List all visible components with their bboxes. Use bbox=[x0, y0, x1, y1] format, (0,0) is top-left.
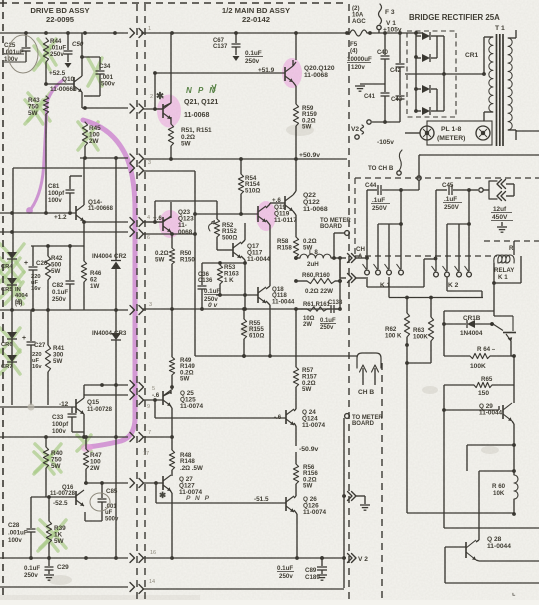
asterisk mark bbox=[156, 91, 165, 102]
label 0v bbox=[208, 302, 218, 309]
green X over R45 bbox=[78, 122, 98, 150]
connector arrows y232 bbox=[130, 228, 144, 239]
wire y171 feed bbox=[143, 170, 195, 172]
scan smudges bbox=[0, 124, 499, 600]
lower right dashed boundary bbox=[381, 363, 383, 600]
wire C45 node to terminal bbox=[469, 188, 489, 192]
resistor R42 bbox=[45, 246, 63, 310]
diode CR1B bbox=[444, 315, 494, 337]
wire to lower connector bbox=[340, 258, 346, 278]
wire Q23 base bbox=[143, 220, 163, 224]
wire Q28 collector bbox=[476, 540, 479, 542]
diode CR2 bbox=[92, 156, 127, 310]
transistor Q22 bbox=[285, 192, 328, 213]
wire Q29 collector emitter bbox=[512, 385, 516, 447]
connector CH A double arrow bbox=[348, 254, 369, 263]
transistor Q23 bbox=[163, 209, 194, 236]
lamp symbol right bbox=[476, 126, 490, 140]
pink highlight blob on Q21 bbox=[157, 95, 181, 128]
diode CR7 bbox=[1, 355, 17, 405]
to CH B wire with terminal bbox=[397, 150, 421, 180]
capacitor C81 bbox=[48, 176, 82, 211]
transistor Q28 bbox=[466, 536, 511, 560]
pink highlight blob on Q23 bbox=[159, 210, 181, 238]
wire top rail drive board bbox=[0, 32, 128, 34]
resistor R64 bbox=[444, 346, 514, 370]
wire rail y558 drive bbox=[0, 556, 128, 560]
label RY partial bbox=[509, 245, 514, 252]
drive/main board boundary dashed line B bbox=[144, 4, 146, 600]
meter lamp box bbox=[427, 121, 492, 145]
wire R44 to Q10 base bbox=[44, 62, 74, 86]
pink highlight blob at R47 top bbox=[81, 444, 93, 452]
resistor R48/R148 bbox=[169, 437, 203, 476]
wire rail y246 drive bbox=[31, 244, 84, 248]
wire Q20 base from +51.9 rail bbox=[153, 71, 285, 75]
wire rail y587 drive bbox=[0, 586, 128, 588]
wire to CH A connector bbox=[340, 257, 346, 259]
label PL 1-8 METER bbox=[437, 126, 465, 142]
capacitor C40 bbox=[377, 33, 390, 92]
green X over R43 bbox=[25, 93, 50, 124]
wire Q14 base line bbox=[0, 211, 76, 215]
transistor Q27 bbox=[163, 475, 203, 496]
resistor R63 bbox=[413, 298, 434, 364]
trimpot R52/R152 bbox=[209, 201, 238, 248]
wire long left rail lower bbox=[407, 512, 514, 514]
wire Q16 base line bbox=[31, 495, 76, 499]
label V1 +105v bbox=[383, 20, 402, 34]
wire ladder top bbox=[442, 311, 494, 356]
connector arrows y395 bbox=[130, 391, 144, 405]
label +50.9v bbox=[299, 152, 320, 159]
label +1.2 bbox=[54, 214, 67, 221]
capacitor C50 bbox=[64, 33, 84, 62]
wire Q20 collector bbox=[293, 33, 296, 66]
resistor R53/R163 bbox=[217, 264, 239, 295]
capacitor C42 bbox=[390, 33, 405, 95]
wire Q21 collector bbox=[163, 33, 171, 107]
transistor Q15 bbox=[76, 398, 113, 414]
capacitor C82 bbox=[52, 246, 75, 310]
diode CR3 bbox=[92, 310, 127, 560]
connector CH B bbox=[357, 353, 381, 385]
label CR1 bbox=[465, 52, 479, 59]
label -51.5 bbox=[254, 496, 269, 503]
green marks over C34 bbox=[88, 58, 102, 86]
wire Q20 emitter and resistor R59 bbox=[293, 82, 317, 159]
label +51.9 bbox=[258, 67, 275, 74]
page left edge dashed border bbox=[2, 0, 4, 600]
label F5 value bbox=[347, 41, 372, 71]
resistor R54/R154 bbox=[238, 159, 260, 214]
drive/main board boundary dashed line A bbox=[136, 4, 138, 600]
connector arrows pin 2 bbox=[130, 104, 144, 113]
wire Q29 base line bbox=[444, 406, 499, 410]
wire 0v rail bbox=[143, 307, 340, 311]
magenta curve stroke 1 bbox=[26, 80, 63, 214]
bridge diode 3 bbox=[416, 85, 437, 111]
relay section left dashed line bbox=[354, 178, 356, 257]
wire C44 node to TO-CH-B bbox=[401, 180, 419, 190]
resistor R45 bbox=[82, 122, 101, 146]
wire Q21 base feed from +51.9 bbox=[154, 73, 156, 109]
transistor Q16 drive bbox=[50, 485, 84, 506]
pink highlight blob on Q19 bbox=[256, 201, 276, 231]
resistor R43 bbox=[28, 96, 49, 117]
wire y234 link bbox=[170, 232, 197, 236]
label -.6 at Q25 bbox=[152, 392, 160, 399]
vertical bus x195 bbox=[194, 171, 196, 356]
wire Q18 collector bbox=[266, 286, 270, 289]
label T1 bbox=[495, 25, 505, 32]
connector arrows y587 bbox=[130, 583, 144, 594]
wire x340 down bbox=[338, 258, 342, 311]
resistor R41 bbox=[45, 310, 65, 405]
label NPN handwritten bbox=[186, 86, 217, 95]
wire Q22 collector bbox=[293, 159, 296, 195]
capacitor C26 electrolytic bbox=[24, 246, 48, 310]
transformer primary winding bbox=[484, 37, 493, 121]
connector bracket to right bbox=[489, 180, 514, 201]
transistor Q19 bbox=[258, 204, 297, 224]
wire x431 upper link bbox=[430, 362, 432, 364]
resistor R61/R161 and capacitor C138 bbox=[296, 300, 343, 331]
junction dots top rail bbox=[24, 31, 117, 35]
wire Q25 base bbox=[143, 398, 163, 402]
connector V2 out bbox=[320, 554, 368, 564]
wire ladder mid bbox=[442, 385, 446, 412]
relay K1 contacts bbox=[363, 264, 404, 275]
transistor Q29 bbox=[479, 403, 512, 421]
resistor R55/R155 bbox=[241, 309, 264, 358]
capacitor C45 bbox=[436, 182, 471, 211]
ground branch C41 bbox=[355, 84, 385, 91]
transformer secondary winding bbox=[508, 38, 516, 130]
transistor Q18 bbox=[258, 286, 295, 305]
main board right dashed boundary bbox=[348, 4, 350, 600]
label PNP handwritten bbox=[186, 495, 211, 502]
label +52.5 bbox=[49, 70, 66, 77]
wire Q19 collector to Q22 base bbox=[266, 203, 285, 208]
meter tap circle bbox=[332, 231, 349, 260]
pencil circle around C85 bbox=[90, 493, 110, 511]
bridge diode 2 bbox=[416, 36, 437, 62]
resistor R49/R149 bbox=[169, 309, 195, 390]
wire Q17 base bbox=[217, 248, 233, 250]
label (2) 10A AGC bbox=[352, 5, 366, 25]
bridge diode 4 bbox=[416, 107, 444, 115]
green X over R40 bbox=[34, 444, 61, 474]
wire Q14 collector bbox=[83, 158, 85, 205]
ground arrow below C50 bbox=[65, 63, 72, 68]
capacitor C89/C189 bbox=[277, 558, 327, 581]
wire y201 link bbox=[155, 201, 217, 222]
transistor Q10 bbox=[50, 76, 82, 93]
capacitor C34 branch bbox=[82, 57, 115, 96]
relay K1 contact feed wires bbox=[367, 190, 403, 269]
wire +50.9 rail bbox=[143, 157, 347, 161]
green mark near NPN label bbox=[212, 84, 216, 92]
label -50.9v bbox=[299, 446, 319, 453]
relay K2 contact feed wires bbox=[436, 190, 471, 271]
vertical wire x344 bbox=[343, 418, 345, 588]
green check marks over R44 bbox=[34, 39, 56, 70]
inductor L8 bbox=[294, 249, 342, 268]
connector arrows y483 bbox=[130, 479, 144, 488]
connector arrows y385 bbox=[130, 381, 144, 392]
capacitor C25 bbox=[4, 33, 31, 63]
connector arrows y437 bbox=[130, 433, 144, 442]
wire rail y222 drive bbox=[84, 221, 128, 223]
green X over CR5 bbox=[0, 272, 24, 304]
wire rail y385 drive bbox=[84, 383, 128, 387]
main board left stub wires bbox=[143, 109, 195, 234]
wire Q25 collector bbox=[163, 390, 171, 396]
label CH A bbox=[356, 246, 365, 260]
label -12 bbox=[59, 401, 69, 408]
wire R43 bottom bbox=[44, 114, 48, 215]
eraser smudge on base line bbox=[28, 404, 35, 411]
wire Q23 emitter bbox=[169, 230, 172, 234]
relay right leg bbox=[494, 256, 521, 283]
connector arrows y558 bbox=[130, 554, 144, 563]
capacitor C28 bbox=[8, 497, 36, 558]
wire rail y483 drive bbox=[84, 481, 128, 485]
wire Q27 base to -51.5 line bbox=[156, 483, 286, 503]
resistor R51/R151 bbox=[168, 117, 212, 159]
capacitor C44 bbox=[365, 182, 403, 212]
wire Q27 emitter bbox=[169, 489, 172, 558]
transistor Q17 bbox=[233, 242, 271, 263]
wire R45 to Q14 rail bbox=[83, 146, 87, 160]
wire Q27 base bbox=[143, 481, 163, 485]
wire to R66 row bbox=[479, 469, 516, 540]
connector to ground right bbox=[342, 492, 370, 511]
wire Q18 emitter bbox=[266, 301, 270, 356]
wire Q15 base line bbox=[0, 406, 76, 408]
wire Q17 collector bbox=[241, 223, 245, 244]
label -.6 at Q24 bbox=[274, 414, 282, 421]
green X over CR4 bbox=[0, 244, 24, 282]
wire Q17 emitter bbox=[241, 256, 247, 308]
fuse F3 vertical bbox=[377, 4, 382, 33]
resistor R39 bbox=[46, 497, 66, 558]
label TO CH B bbox=[368, 165, 394, 172]
connector arrows y222 bbox=[130, 218, 144, 227]
label -52.5 bbox=[53, 500, 68, 507]
wire rail y395 drive bbox=[84, 385, 128, 398]
wire CR1B to transistor bbox=[490, 322, 494, 326]
relay K1 dashed line bbox=[484, 240, 539, 242]
inductor R66 10K bbox=[492, 445, 518, 516]
wire Q23 collector bbox=[163, 202, 171, 221]
resistor R44 bbox=[43, 38, 66, 62]
label RELAY K1 bbox=[494, 267, 515, 281]
wire top right rail bbox=[419, 154, 539, 156]
title BRIDGE RECTIFIER 25A bbox=[409, 13, 500, 22]
node C34 top bbox=[80, 55, 84, 59]
capacitor C41 bbox=[364, 93, 390, 122]
assembly top dashed border bbox=[0, 2, 348, 4]
wire ladder bottom bbox=[467, 445, 514, 471]
green X over CR7 bbox=[0, 350, 20, 374]
wire bridge left rail bbox=[414, 31, 418, 113]
resistor R50/R150 bbox=[155, 234, 195, 309]
meter tap circle 2 bbox=[345, 414, 384, 427]
fuse F5 bbox=[350, 30, 416, 36]
wire y295 Q18 base bbox=[216, 293, 258, 297]
connector arrows pin 3 bbox=[130, 154, 144, 163]
wire Q21 base bbox=[153, 107, 163, 111]
resistor R57/R157 bbox=[293, 309, 317, 409]
wire top rail to bridge bbox=[416, 32, 423, 34]
diode CR5 bbox=[1, 278, 29, 310]
label 12uf 450V bbox=[491, 206, 513, 221]
green X over R47 top bbox=[77, 435, 91, 451]
wire rail y558 main bbox=[143, 556, 345, 560]
label (4) IN4004 bbox=[15, 301, 22, 307]
wire rail y310 drive bbox=[0, 308, 128, 312]
wire right rail upper bbox=[511, 341, 516, 358]
green X over R39 bbox=[38, 520, 66, 551]
bridge mid line bbox=[405, 72, 446, 76]
diode CR4 bbox=[1, 252, 17, 278]
relay K1 coil bbox=[494, 241, 514, 263]
title DRIVE BD ASSY bbox=[30, 6, 89, 24]
transistor Q21 bbox=[163, 99, 218, 119]
asterisk at Q27 bbox=[159, 490, 167, 500]
wire -50.9 down bbox=[295, 452, 297, 462]
capacitor C29 to ground bbox=[24, 558, 69, 580]
green X over CR6 bbox=[0, 328, 20, 352]
label CH B bbox=[358, 389, 374, 396]
wire Q24 emitter bbox=[294, 423, 296, 446]
resistor R47 bbox=[83, 437, 102, 483]
resistor R46 bbox=[81, 246, 102, 310]
wire rail y232 drive bbox=[0, 230, 128, 234]
resistor R56/R156 bbox=[293, 462, 318, 496]
wire box around Q28 bbox=[445, 547, 539, 583]
wire +105V rail main bbox=[141, 31, 350, 35]
wire rail y168 drive bbox=[13, 168, 128, 252]
transistor Q14 bbox=[76, 199, 114, 221]
capacitor C85 bbox=[85, 483, 119, 522]
wire x444 vertical bbox=[443, 410, 445, 528]
bridge rectifier dashed box bbox=[407, 31, 456, 117]
wire secondary taps bbox=[515, 30, 517, 140]
relay section top dashed line bbox=[355, 177, 539, 179]
wire Q14 emitter bbox=[82, 220, 86, 246]
connector arrows pin 1 bbox=[130, 29, 144, 38]
wire Q19 emitter down bbox=[266, 220, 270, 286]
wire R63 bottom link bbox=[405, 361, 431, 365]
wire rail y158 drive bbox=[80, 157, 128, 159]
capacitor C36/C136 bbox=[198, 263, 222, 309]
transistor Q26 bbox=[286, 496, 327, 516]
capacitor C27 electrolytic bbox=[22, 310, 46, 405]
label +.6 at Q23 bbox=[153, 215, 162, 222]
resistor R58/R158 bbox=[277, 237, 317, 260]
pink highlight blob on Q20 bbox=[282, 58, 302, 88]
connector arrows y168 bbox=[130, 164, 144, 176]
transistor Q25 bbox=[163, 390, 204, 410]
label K1 bbox=[380, 282, 391, 289]
label F3 bbox=[385, 9, 395, 16]
transformer core bars bbox=[497, 34, 504, 146]
wire mid rail drive board bbox=[82, 107, 128, 109]
capacitor C43 bbox=[391, 96, 405, 122]
wire rail y437 main bbox=[143, 436, 172, 438]
wire base line y214 bbox=[193, 212, 258, 216]
pencil pin numbers on connector bbox=[143, 26, 165, 585]
wire Q28 emitter bbox=[476, 560, 539, 561]
wire y528 line bbox=[444, 527, 539, 529]
wire bottom rail main bbox=[143, 588, 344, 590]
transistor Q20 bbox=[285, 65, 335, 82]
wire Q26 collector bbox=[294, 496, 296, 498]
resistor R40 bbox=[43, 437, 63, 497]
relay area bottom wires bbox=[367, 257, 483, 300]
label V2 -105v bbox=[351, 126, 394, 146]
transistor Q30 upper right bbox=[493, 316, 516, 341]
wire Q25 emitter bbox=[169, 404, 174, 439]
wire Q15 emitter bbox=[72, 414, 86, 439]
resistor R60/R160 bbox=[294, 272, 342, 295]
bridge diode 1 bbox=[416, 32, 444, 40]
pencil bracket mark bbox=[512, 588, 516, 597]
wire Q30 collector line bbox=[494, 311, 513, 316]
wire Q26 emitter bbox=[294, 510, 297, 558]
bridge output wires bbox=[444, 36, 486, 111]
label K2 bbox=[448, 282, 459, 289]
ground below 450V bbox=[497, 222, 507, 232]
lamp symbol left bbox=[420, 126, 434, 140]
wire rail y437 drive bbox=[0, 435, 128, 439]
capacitor C67/C137 bbox=[213, 33, 263, 65]
diode CR6 bbox=[1, 310, 17, 355]
magenta curve stroke 2 bbox=[83, 120, 135, 447]
pencil circle around C25 bbox=[8, 35, 38, 73]
transistor Q24 bbox=[286, 409, 326, 429]
title 1/2 MAIN BD ASSY bbox=[222, 6, 290, 24]
wire -105V rail bbox=[355, 120, 400, 139]
wire y263 top of R53 bbox=[202, 261, 247, 265]
label +.6 at Q19 bbox=[272, 197, 281, 204]
resistor R62 bbox=[385, 298, 410, 514]
wire to lamps bbox=[405, 132, 420, 134]
wire Q24 collector bbox=[294, 409, 296, 411]
relay section bottom dashed line bbox=[355, 255, 497, 257]
connector double arrow lower bbox=[348, 274, 367, 283]
wire right rail bottom segment bbox=[516, 130, 539, 132]
relay K2 contacts bbox=[432, 266, 472, 277]
capacitor C33 bbox=[52, 407, 77, 435]
resistor R65 bbox=[444, 356, 514, 397]
label TO METER BOARD upper bbox=[320, 218, 351, 230]
wire Q25 base to Q24 base bbox=[155, 400, 286, 418]
wire Q10 collector bbox=[81, 33, 83, 76]
wire Q22 emitter bbox=[293, 211, 296, 237]
wire output line y356 bbox=[195, 354, 357, 358]
connector arrows y310 bbox=[130, 306, 144, 315]
wire Q10 emitter down bbox=[82, 92, 87, 110]
relay coil left leg bbox=[492, 263, 496, 311]
